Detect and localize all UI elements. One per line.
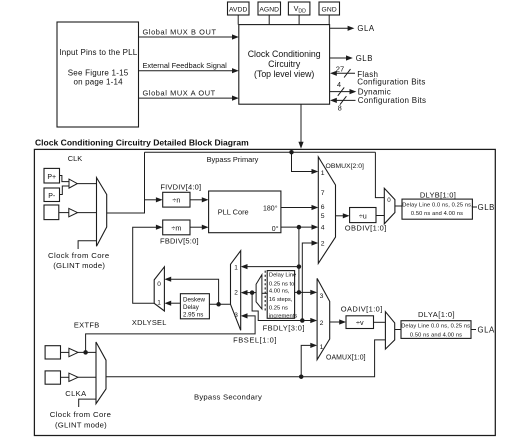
label: Clock from Core (GLINT mode) upper <box>48 251 110 270</box>
wire: rail branch to FBSEL input 1 <box>241 264 301 269</box>
wire: divider m to PLL Core <box>190 225 209 230</box>
wire: divider u to DLYB bypass mux <box>376 215 384 217</box>
bus: Flash Configuration Bits (27 bits, into block) <box>330 64 426 86</box>
wire: FBDLY output rail around delay box <box>252 293 297 321</box>
wire CLKA pad to buffer <box>61 376 69 378</box>
svg-text:Delay Line: Delay Line <box>269 272 296 278</box>
wire: PLL 180 deg output to OBMUX input 6 <box>281 205 318 210</box>
svg-text:1: 1 <box>157 300 161 307</box>
svg-text:on page 1-14: on page 1-14 <box>73 77 123 86</box>
output GLA <box>330 24 375 33</box>
svg-text:OBDIV[1:0]: OBDIV[1:0] <box>345 224 387 233</box>
wire: OBMUX output to OBDIV divider <box>336 213 350 218</box>
wire: CLK mux output to bypass-primary rail <box>107 152 145 213</box>
label CLK <box>68 154 82 163</box>
wire EXTFB pad to buffer <box>61 351 69 353</box>
wire: rail branch to OAMUX input 3 and FBDLY delay input <box>295 290 318 295</box>
wire: FBDLY rail to OAMUX input 2 <box>297 318 317 323</box>
svg-text:0.25 ns to: 0.25 ns to <box>269 281 294 287</box>
block: Clock Conditioning Circuitry (Top level view) <box>239 25 330 105</box>
input buffer B4 (CLKA) <box>69 373 78 381</box>
svg-text:CLKA: CLKA <box>65 389 86 398</box>
mux OBMUX <box>318 157 364 264</box>
bus: Configuration Bits (8 bits, into block) <box>330 96 426 112</box>
svg-text:4: 4 <box>321 225 325 232</box>
bus: 0 deg rail down (feedback/output taps) <box>298 227 300 292</box>
mux: CLK input select (GLINT) <box>97 178 107 247</box>
svg-text:AVDD: AVDD <box>229 7 248 14</box>
svg-text:1: 1 <box>320 344 324 351</box>
svg-text:7: 7 <box>321 190 325 197</box>
svg-text:increments: increments <box>269 313 297 319</box>
wire: divider v to DLYA bypass mux <box>374 321 386 323</box>
svg-text:180°: 180° <box>263 205 278 213</box>
output GLA (detailed) <box>471 325 495 334</box>
svg-text:4: 4 <box>337 80 341 89</box>
delay block: Deskew Delay 2.95 ns <box>180 294 209 319</box>
svg-text:External Feedback Signal: External Feedback Signal <box>143 61 228 70</box>
svg-text:Clock Conditioning: Clock Conditioning <box>248 49 321 59</box>
label XDLYSEL <box>132 318 167 327</box>
input buffer B1 (differential) <box>69 179 77 188</box>
svg-text:1: 1 <box>321 170 325 177</box>
svg-text:8: 8 <box>338 104 342 113</box>
svg-text:Input Pins to the PLL: Input Pins to the PLL <box>59 48 137 57</box>
pad P+ <box>44 168 60 183</box>
wire: Global MUX B OUT <box>139 27 239 39</box>
wire: EXTFB riser to FBSEL input 3 <box>86 313 256 352</box>
wire pad to input buffer B2 <box>59 212 69 214</box>
wire: bypass secondary branch up to OAMUX input 1 <box>299 343 317 379</box>
label FBDLY[3:0] <box>263 324 305 333</box>
block PLL Core <box>209 191 281 233</box>
power pin VDD <box>288 2 310 25</box>
svg-text:(Top level view): (Top level view) <box>254 69 314 79</box>
svg-text:÷m: ÷m <box>171 223 181 232</box>
label EXTFB <box>74 320 100 329</box>
wire buffer B2 to CLK mux <box>78 212 97 214</box>
svg-text:GLB: GLB <box>356 54 373 63</box>
svg-text:Delay Line 0.0 ns, 0.25 ns,: Delay Line 0.0 ns, 0.25 ns, <box>402 203 473 209</box>
svg-text:See Figure 1-15: See Figure 1-15 <box>68 69 129 78</box>
svg-text:÷v: ÷v <box>356 318 364 327</box>
svg-text:(GLINT mode): (GLINT mode) <box>55 421 107 430</box>
input buffer B2 <box>69 208 78 216</box>
divider OBDIV (divide by u) <box>345 208 387 233</box>
svg-text:0: 0 <box>157 281 161 288</box>
svg-text:Circuitry: Circuitry <box>268 59 301 69</box>
svg-text:P-: P- <box>48 193 56 200</box>
label Bypass Primary <box>207 155 259 164</box>
svg-text:FBDLY[3:0]: FBDLY[3:0] <box>263 324 305 333</box>
svg-text:0.50 ns and 4.00 ns: 0.50 ns and 4.00 ns <box>410 332 462 338</box>
bus: FBDLY output rail up to OBMUX input 2 <box>302 240 318 320</box>
wire: bypass mux to DLYA delay line <box>395 329 401 331</box>
svg-text:1: 1 <box>234 265 238 272</box>
wire: Bypass Primary rail <box>145 151 376 153</box>
divider FBDIV (divide by m) <box>160 220 199 246</box>
svg-text:PLL Core: PLL Core <box>218 208 249 217</box>
mux: DLYA bypass select <box>385 312 394 349</box>
pad CLKA input <box>45 371 60 384</box>
svg-text:GLA: GLA <box>357 24 375 33</box>
svg-text:Bypass Secondary: Bypass Secondary <box>194 393 262 402</box>
block: Input Pins to the PLL <box>57 22 139 127</box>
svg-text:GND: GND <box>322 7 337 14</box>
wire buffer B3 to CLKA mux (EXTFB node) <box>78 350 96 355</box>
wire buffer B4 to CLKA mux <box>78 376 96 378</box>
wire: FBDLY mux output to FBSEL input 2 <box>241 290 256 295</box>
wire: Global MUX A OUT <box>139 89 239 101</box>
svg-text:÷u: ÷u <box>359 211 367 220</box>
svg-text:Deskew: Deskew <box>183 296 206 303</box>
svg-text:Delay: Delay <box>183 304 200 311</box>
svg-text:6: 6 <box>321 204 325 211</box>
label OAMUX[1:0] <box>326 355 366 362</box>
wire: branch to FIVDIV divider <box>145 197 163 202</box>
wire: Clock from Core (GLINT) to CLKA mux <box>79 399 96 407</box>
svg-text:GLA: GLA <box>478 325 496 334</box>
svg-text:Configuration Bits: Configuration Bits <box>357 77 426 86</box>
svg-text:Clock from Core: Clock from Core <box>48 251 110 260</box>
svg-text:AGND: AGND <box>259 7 279 14</box>
svg-text:Configuration Bits: Configuration Bits <box>358 96 427 105</box>
delay line DLYA <box>401 310 472 339</box>
wire: OAMUX output to OADIV divider <box>330 319 346 324</box>
svg-text:0.25 ns: 0.25 ns <box>269 306 288 312</box>
label CLKA <box>65 389 86 398</box>
power pin GND <box>319 2 340 25</box>
svg-text:27: 27 <box>336 64 344 73</box>
svg-text:Clock from Core: Clock from Core <box>50 410 112 419</box>
title: Clock Conditioning Circuitry Detailed Block Diagram <box>35 138 249 148</box>
enclosure: detailed block diagram box <box>34 149 495 435</box>
pad P- <box>44 188 60 202</box>
svg-text:XDLYSEL: XDLYSEL <box>132 318 167 327</box>
svg-text:EXTFB: EXTFB <box>74 320 100 329</box>
svg-text:Delay Line 0.0 ns, 0.25 ns,: Delay Line 0.0 ns, 0.25 ns, <box>401 324 472 330</box>
pad (unlabeled clock input) <box>44 205 59 220</box>
svg-text:2: 2 <box>234 289 238 296</box>
svg-text:(GLINT mode): (GLINT mode) <box>53 261 105 270</box>
svg-text:16 steps,: 16 steps, <box>269 297 293 303</box>
power pin AGND <box>258 2 281 25</box>
svg-text:Global MUX A OUT: Global MUX A OUT <box>143 89 216 98</box>
label: Clock from Core (GLINT mode) lower <box>50 410 112 430</box>
wire: divider n to PLL Core <box>190 197 209 202</box>
svg-text:Bypass Primary: Bypass Primary <box>207 155 259 164</box>
output GLB <box>330 54 373 63</box>
pad EXTFB input <box>45 346 60 359</box>
mux: DLYB bypass select <box>384 188 395 224</box>
wire P+ to input buffer <box>60 176 70 182</box>
svg-text:FIVDIV[4:0]: FIVDIV[4:0] <box>160 183 201 192</box>
bus: Dynamic (4 bits, out of block) <box>330 80 391 97</box>
svg-text:OAMUX[1:0]: OAMUX[1:0] <box>326 355 366 362</box>
wire: FBSEL output to deskew delay and XDLYSEL input 0 <box>164 277 230 307</box>
svg-text:FBSEL[1:0]: FBSEL[1:0] <box>233 336 277 345</box>
svg-text:Clock Conditioning Circuitry D: Clock Conditioning Circuitry Detailed Bl… <box>35 138 249 148</box>
svg-text:5: 5 <box>321 213 325 220</box>
label Bypass Secondary <box>194 393 262 402</box>
svg-text:2: 2 <box>321 240 325 247</box>
svg-text:0°: 0° <box>272 225 279 233</box>
mux: FBDLY tap select <box>256 275 267 309</box>
svg-text:FBDIV[5:0]: FBDIV[5:0] <box>160 237 199 246</box>
svg-text:DLYA[1:0]: DLYA[1:0] <box>418 310 455 319</box>
wire: External Feedback Signal <box>139 61 239 73</box>
wire: bypass mux to DLYB delay line <box>395 205 402 207</box>
wire: Bypass Secondary rail <box>106 340 385 377</box>
wire P- to input buffer <box>60 186 70 195</box>
wire: PLL 0 deg output to OBMUX input 4 <box>281 225 318 230</box>
svg-text:CLK: CLK <box>68 154 82 163</box>
svg-text:OBMUX[2:0]: OBMUX[2:0] <box>326 163 365 170</box>
svg-text:3: 3 <box>320 293 324 300</box>
wire: Clock from Core (GLINT) to CLK mux <box>78 241 96 249</box>
svg-text:OADIV[1:0]: OADIV[1:0] <box>341 304 383 313</box>
wire buffer B1 to CLK mux <box>77 183 96 185</box>
mux OAMUX <box>317 278 330 359</box>
wire: bypass primary branch to OBMUX input 1 <box>289 150 318 174</box>
mux FBSEL (feedback select) <box>231 251 241 331</box>
svg-text:3: 3 <box>234 312 238 319</box>
divider OADIV (divide by v) <box>341 304 383 328</box>
input buffer B3 (EXTFB) <box>69 348 78 356</box>
svg-text:P+: P+ <box>47 174 56 181</box>
output GLB (detailed) <box>472 203 494 212</box>
wire: top-level block down to detailed diagram <box>298 104 303 148</box>
svg-text:DLYB[1:0]: DLYB[1:0] <box>420 190 456 199</box>
wire: bypass primary down to DLYB bypass mux input 0 <box>375 152 384 197</box>
svg-text:Global MUX B OUT: Global MUX B OUT <box>143 27 217 36</box>
delay line FBDLY (tapped) <box>265 271 297 320</box>
svg-text:4.00 ns,: 4.00 ns, <box>269 289 290 295</box>
svg-text:2.95 ns: 2.95 ns <box>183 312 203 319</box>
svg-text:2: 2 <box>320 320 324 327</box>
svg-text:GLB: GLB <box>478 203 495 212</box>
svg-text:0: 0 <box>387 197 391 204</box>
power pin AVDD <box>228 2 250 25</box>
wire: XDLYSEL mux output up to divider m <box>133 225 163 304</box>
mux XDLYSEL (deskew select) <box>154 267 164 311</box>
divider FIVDIV (divide by n) <box>160 183 201 208</box>
label FBSEL[1:0] <box>233 336 277 345</box>
wire: deskew delay output to XDLYSEL input 1 <box>164 301 180 306</box>
svg-text:0.50 ns and 4.00 ns: 0.50 ns and 4.00 ns <box>411 211 463 217</box>
delay line DLYB <box>402 190 473 219</box>
mux: CLKA input select (GLINT) <box>96 342 106 404</box>
svg-text:÷n: ÷n <box>172 196 180 205</box>
